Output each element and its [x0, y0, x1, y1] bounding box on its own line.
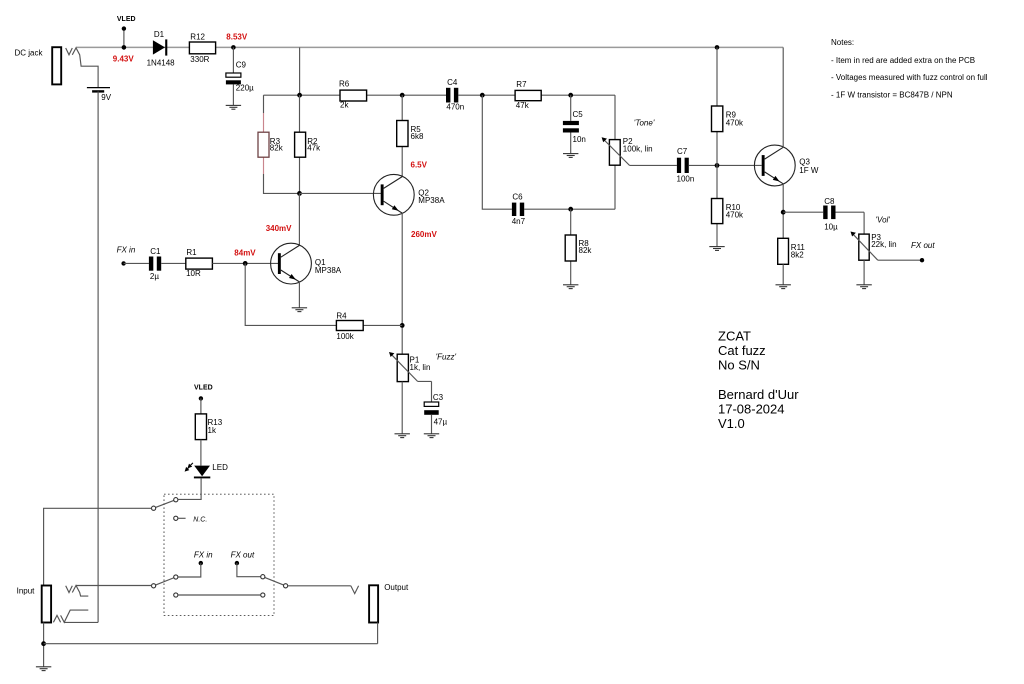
wire C1 to R1 [161, 262, 186, 264]
node 340mV label [266, 224, 292, 233]
svg-text:C6: C6 [512, 193, 523, 202]
svg-text:470n: 470n [446, 103, 464, 112]
svg-text:6k8: 6k8 [411, 132, 424, 141]
node junction R4/P1 [400, 323, 405, 328]
capacitor C7 [677, 147, 695, 183]
capacitor C9 [226, 60, 254, 92]
node 9.43V label [113, 55, 135, 64]
svg-text:'Tone': 'Tone' [634, 118, 655, 127]
wire C5 drop [570, 95, 572, 153]
svg-text:8k2: 8k2 [791, 250, 804, 259]
svg-text:FX out: FX out [911, 241, 935, 250]
resistor R11 [778, 238, 806, 264]
output jack tip contact [351, 586, 359, 594]
svg-text:1k: 1k [208, 426, 217, 435]
transistor Q3 [754, 145, 818, 186]
wire R2 drop [299, 95, 301, 193]
svg-text:D1: D1 [154, 30, 165, 39]
svg-text:100k, lin: 100k, lin [623, 144, 653, 153]
DC jack tip contact [66, 48, 73, 55]
resistor R13 [195, 414, 222, 440]
node junction C8/R11 [781, 210, 786, 215]
svg-text:C4: C4 [447, 78, 458, 87]
wire R5 drop [401, 95, 403, 177]
transistor Q1 [271, 243, 342, 284]
svg-text:100k: 100k [336, 332, 354, 341]
wire FX in to switch contact [178, 563, 201, 577]
svg-text:C8: C8 [824, 197, 835, 206]
wire input tip line [76, 585, 152, 587]
node junction R7/C5 [568, 93, 573, 98]
wire P2 wiper to C7 [630, 164, 677, 166]
wire 95 rail right part [458, 94, 615, 96]
svg-text:DC jack: DC jack [15, 49, 44, 58]
output jack label [384, 583, 409, 592]
battery 9V [87, 88, 112, 102]
input jack label [17, 587, 36, 596]
svg-text:R7: R7 [516, 80, 527, 89]
svg-text:FX in: FX in [194, 550, 213, 559]
wire R3 branch upper [263, 95, 265, 113]
svg-text:9V: 9V [101, 93, 111, 102]
svg-text:1N4148: 1N4148 [147, 58, 176, 67]
ground below P3 [856, 285, 871, 289]
svg-text:Cat fuzz: Cat fuzz [718, 343, 766, 358]
svg-text:- 1F W transistor = BC847B / N: - 1F W transistor = BC847B / NPN [831, 90, 953, 99]
wire C6 branch [482, 95, 615, 209]
wire LED to switch [178, 478, 201, 499]
ground below Q1 [292, 308, 307, 312]
switch N.C. contact [174, 516, 208, 523]
svg-text:Bernard d'Uur: Bernard d'Uur [718, 387, 799, 402]
resistor R7 [515, 80, 541, 110]
capacitor C1 [149, 247, 161, 281]
ground below C3 [424, 434, 439, 438]
ground below R10 [709, 247, 724, 251]
potentiometer P2 Tone [602, 137, 653, 165]
svg-text:22k, lin: 22k, lin [871, 240, 896, 249]
switch pole 3 (output) [261, 575, 288, 588]
node FX out (switch) [231, 550, 255, 565]
svg-text:470k: 470k [726, 119, 744, 128]
resistor R3 (red, added on PCB) [258, 132, 284, 157]
node junction R9 top [715, 45, 720, 50]
wire R8 drop [570, 209, 572, 285]
wire FX out to switch contact [237, 563, 261, 577]
wire R1 to Q1 base [212, 262, 278, 264]
node junction R2/R6 [297, 93, 302, 98]
svg-text:1k, lin: 1k, lin [410, 363, 431, 372]
svg-text:C9: C9 [236, 60, 247, 69]
wire P1 wiper to C3 [418, 381, 432, 402]
switch pole 2 (input) [152, 575, 178, 588]
resistor R4 [336, 311, 363, 341]
resistor R12 [189, 33, 215, 65]
DC jack sleeve contact and wire to battery [72, 48, 98, 88]
node 9.43V junction dot [122, 45, 127, 50]
svg-text:82k: 82k [579, 246, 593, 255]
svg-text:17-08-2024: 17-08-2024 [718, 402, 785, 417]
svg-text:260mV: 260mV [411, 230, 437, 239]
wire switch pole1 to input jack body [44, 508, 152, 585]
node 8.53V label [226, 33, 248, 42]
svg-text:1F W: 1F W [799, 166, 819, 175]
potentiometer P1 Fuzz [389, 352, 430, 382]
notes text [831, 38, 988, 99]
svg-text:LED: LED [212, 463, 228, 472]
wire R11 to ground [782, 264, 784, 285]
wire bottom ground rail [44, 643, 378, 645]
node junction base of Q2 / R2 / R3 / Q1 collector [297, 191, 302, 196]
wire R13 to LED [200, 440, 202, 466]
node VLED lower dot [199, 396, 203, 400]
potentiometer P3 Vol [851, 232, 897, 261]
wire R4 branch [245, 263, 402, 325]
svg-text:9.43V: 9.43V [113, 55, 135, 64]
node VLED label [117, 16, 136, 23]
svg-text:2k: 2k [340, 101, 349, 110]
capacitor C6 [512, 193, 526, 227]
svg-text:340mV: 340mV [266, 224, 292, 233]
svg-text:R4: R4 [336, 311, 347, 320]
svg-text:N.C.: N.C. [193, 516, 207, 523]
wire Q3 emitter to R11 [782, 184, 784, 239]
wire drop from rail to 95-rail [299, 47, 301, 95]
resistor R1 [186, 248, 213, 278]
capacitor C4 [446, 78, 464, 111]
resistor R8 [565, 235, 592, 261]
dotted switch outline [164, 494, 274, 615]
resistor R10 [712, 199, 745, 224]
svg-text:82k: 82k [270, 144, 284, 153]
svg-text:47µ: 47µ [434, 417, 448, 426]
wire output jack to ground rail [377, 623, 379, 644]
node junction ground rail [41, 641, 46, 646]
node 6.5V label [411, 160, 428, 169]
svg-text:8.53V: 8.53V [226, 33, 248, 42]
node 260mV label [411, 230, 437, 239]
node Vol label [876, 216, 891, 225]
node FX in (switch) [194, 550, 213, 565]
svg-text:10µ: 10µ [824, 222, 838, 231]
svg-text:47k: 47k [516, 101, 530, 110]
wire C9 drop [232, 47, 234, 105]
node FX out [911, 241, 935, 262]
diode D1 [147, 30, 176, 67]
wire battery negative to input jack sleeve [97, 91, 99, 622]
svg-text:C1: C1 [150, 247, 161, 256]
capacitor C3 [424, 393, 447, 426]
ground below P1 [395, 434, 410, 438]
wire 95 rail left part [264, 94, 447, 96]
output jack body [369, 585, 378, 622]
svg-text:84mV: 84mV [234, 248, 256, 257]
wire input jack to ground rail [43, 623, 45, 667]
ground below C5 [563, 154, 578, 158]
wire VLED to R13 [200, 398, 202, 414]
svg-text:VLED: VLED [117, 16, 136, 23]
svg-text:R1: R1 [186, 248, 197, 257]
svg-text:C3: C3 [433, 393, 444, 402]
resistor R6 [339, 79, 367, 109]
svg-text:100n: 100n [677, 174, 695, 183]
svg-text:No S/N: No S/N [718, 358, 760, 373]
node junction C4/C6 branch [480, 93, 485, 98]
DC jack body [52, 47, 61, 84]
node Fuzz label [436, 353, 457, 362]
node VLED top dot [122, 26, 126, 30]
wire VLED drop [123, 29, 125, 48]
svg-text:10R: 10R [186, 269, 201, 278]
node 84mV label [234, 248, 256, 257]
DC jack label [15, 49, 44, 58]
resistor R9 [712, 106, 745, 132]
capacitor C5 [563, 110, 586, 144]
switch bypass contacts [174, 593, 265, 597]
wire C7 to Q3 base [689, 164, 762, 166]
resistor R5 [397, 121, 424, 147]
svg-text:FX in: FX in [117, 246, 136, 255]
transistor Q2 [373, 174, 445, 215]
svg-text:47k: 47k [307, 144, 321, 153]
wire Q1 emitter to ground [298, 282, 300, 308]
svg-text:220µ: 220µ [236, 83, 254, 92]
input jack body [42, 586, 51, 623]
ground below R8 [563, 285, 578, 289]
wire Q3 collector to rail [782, 47, 784, 147]
wire R3 branch red lower [263, 157, 265, 174]
wire top power rail [76, 46, 783, 48]
wire P2 top drop [614, 95, 616, 139]
svg-text:C7: C7 [677, 147, 688, 156]
wire Q1 collector riser [298, 193, 300, 245]
input jack sleeve contact [53, 610, 98, 622]
ground below R11 [776, 285, 791, 289]
wire bypass link [178, 594, 260, 596]
svg-text:MP38A: MP38A [315, 266, 342, 275]
svg-text:- Voltages measured with fuzz: - Voltages measured with fuzz control on… [831, 73, 988, 82]
wire Q2 emitter down to P1 [401, 213, 403, 354]
ground below C9 [226, 105, 241, 109]
svg-text:4n7: 4n7 [512, 217, 526, 226]
svg-text:ZCAT: ZCAT [718, 329, 751, 344]
resistor R2 [295, 132, 321, 157]
svg-text:- Item in red are added extra: - Item in red are added extra on the PCB [831, 56, 975, 65]
title block [718, 329, 799, 432]
svg-text:'Vol': 'Vol' [876, 216, 891, 225]
svg-text:2µ: 2µ [150, 272, 159, 281]
switch pole 1 (LED) [152, 498, 178, 511]
wire C8 row [783, 212, 864, 234]
node junction R6/R5/C4 [400, 93, 405, 98]
svg-text:Input: Input [17, 587, 36, 596]
node junction C6/R8 [568, 207, 573, 212]
wire P3 to ground [863, 260, 865, 285]
wire output pole line [288, 585, 351, 587]
svg-text:470k: 470k [726, 211, 744, 220]
svg-text:R6: R6 [339, 79, 350, 88]
wire P1 bottom to ground [401, 382, 403, 434]
input jack tip contact [66, 586, 89, 597]
wire R10 drop [716, 165, 718, 246]
svg-text:V1.0: V1.0 [718, 416, 745, 431]
capacitor C8 [823, 197, 838, 232]
svg-text:Notes:: Notes: [831, 38, 854, 47]
node 8.53V junction dot [231, 45, 236, 50]
node VLED lower label [194, 385, 213, 392]
node junction C7/R9/R10 [715, 163, 720, 168]
wire R3 branch lower [264, 174, 300, 193]
wire FX in to C1 [124, 262, 149, 264]
LED [185, 463, 228, 478]
svg-text:Output: Output [384, 583, 409, 592]
wire R3 branch red upper [263, 113, 265, 132]
svg-text:10n: 10n [573, 135, 586, 144]
ground bottom left [36, 667, 51, 671]
wire Q2 base rail [300, 192, 382, 194]
node junction 84mV [243, 261, 248, 266]
svg-text:FX out: FX out [231, 550, 255, 559]
svg-text:C5: C5 [573, 110, 584, 119]
svg-text:330R: 330R [190, 55, 209, 64]
svg-text:MP38A: MP38A [418, 196, 445, 205]
wire P3 wiper to FX out [878, 259, 922, 261]
node Tone label [634, 118, 655, 127]
svg-text:R12: R12 [190, 33, 205, 42]
node FX in [117, 246, 136, 266]
svg-text:'Fuzz': 'Fuzz' [436, 353, 457, 362]
svg-text:6.5V: 6.5V [411, 160, 428, 169]
wire R9 drop [716, 47, 718, 165]
wire C3 to ground [431, 415, 433, 434]
svg-text:VLED: VLED [194, 385, 213, 392]
